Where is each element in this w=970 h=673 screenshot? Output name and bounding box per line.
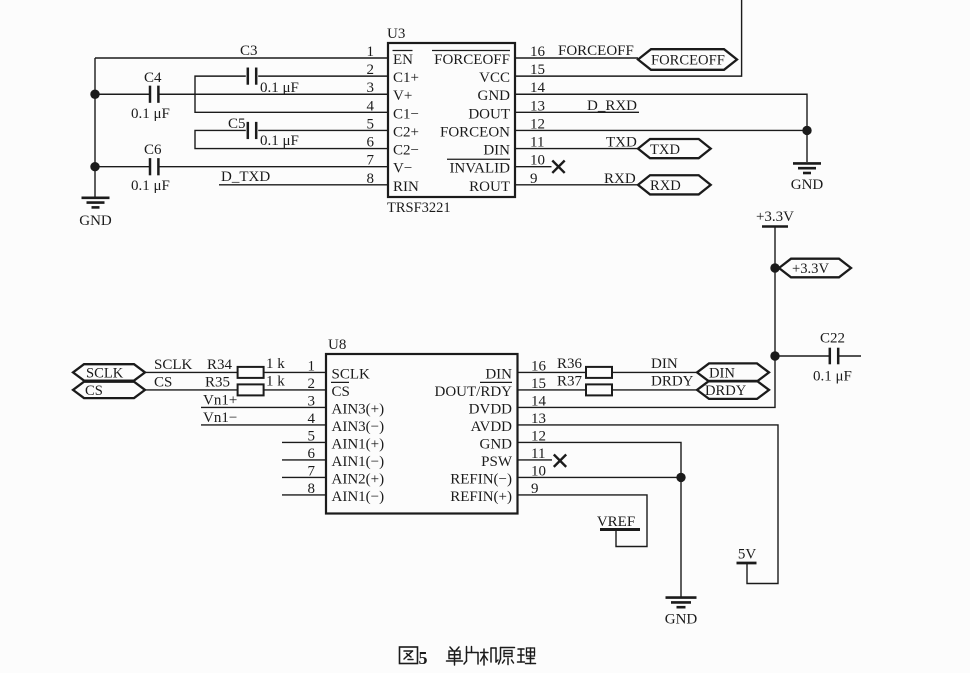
svg-text:R37: R37	[557, 373, 583, 389]
wire: pin5 C2+ to capacitor C5	[258, 129, 388, 131]
U3 pin 14 (GND)	[478, 80, 546, 104]
capacitor C3 0.1uF	[240, 43, 299, 96]
U3 pin 10 (INVALID)	[447, 153, 545, 177]
svg-text:FORCEON: FORCEON	[440, 124, 510, 140]
svg-text:5: 5	[419, 648, 428, 668]
svg-text:GND: GND	[480, 436, 513, 452]
svg-text:TRSF3221: TRSF3221	[387, 200, 451, 216]
U3 pin 11 (DIN)	[483, 135, 544, 159]
wire: pin10 REFIN(-) to ground rail	[518, 476, 682, 478]
svg-text:RXD: RXD	[604, 171, 636, 187]
svg-text:D_RXD: D_RXD	[587, 98, 637, 114]
wire: pin11 PSW stub	[518, 459, 553, 461]
svg-text:C5: C5	[228, 116, 246, 132]
junction: V+ row on GND rail	[90, 90, 99, 99]
svg-text:CS: CS	[154, 374, 172, 390]
svg-text:AIN1(−): AIN1(−)	[332, 489, 385, 505]
svg-text:TXD: TXD	[606, 135, 637, 151]
ground symbol (top right)	[791, 163, 824, 193]
wire: pin16 FORCEOFF stub to flag	[515, 57, 638, 59]
svg-text:0.1 μF: 0.1 μF	[131, 106, 170, 122]
svg-text:DIN: DIN	[651, 356, 678, 372]
svg-text:DIN: DIN	[709, 366, 735, 382]
svg-text:ROUT: ROUT	[469, 179, 510, 195]
svg-text:Vn1+: Vn1+	[203, 392, 237, 408]
U8 pin 6 (AIN1(−))	[308, 446, 385, 470]
svg-text:U3: U3	[387, 26, 405, 42]
net label RXD	[604, 171, 636, 187]
net flag +3.3V	[779, 259, 851, 278]
wire: pin1 EN to GND rail	[95, 57, 388, 59]
wire: pin10 INVALID stub	[515, 166, 552, 168]
wire: pin5 stub	[282, 441, 326, 443]
wire: pin13 DOUT stub (net D_RXD)	[515, 111, 639, 113]
svg-text:D_TXD: D_TXD	[221, 169, 270, 185]
wire: Vnl+ stub to pin3 AIN3(+)	[201, 406, 326, 408]
wire: Vnl- stub to pin4 AIN3(-)	[201, 424, 326, 426]
U8 pin 4 (AIN3(−))	[308, 411, 385, 435]
U8 pin 10 (REFIN(−))	[450, 463, 546, 487]
U3 part number TRSF3221	[387, 200, 451, 216]
svg-text:GND: GND	[478, 88, 511, 104]
net flag CS	[73, 382, 145, 399]
svg-text:AVDD: AVDD	[471, 419, 513, 435]
junction: +3.3V flag tap	[770, 263, 779, 272]
svg-text:SCLK: SCLK	[154, 357, 193, 373]
svg-text:GND: GND	[791, 177, 824, 193]
svg-text:PSW: PSW	[481, 454, 513, 470]
net label D_RXD	[587, 98, 637, 114]
svg-text:14: 14	[531, 393, 547, 409]
net flag SCLK	[73, 364, 145, 381]
wire: pin9 ROUT stub to RXD flag	[515, 184, 638, 186]
svg-text:1 k: 1 k	[266, 373, 285, 389]
U3 pin 15 (VCC)	[479, 62, 545, 86]
wire: tap to capacitor C22	[775, 355, 830, 357]
svg-text:RXD: RXD	[650, 178, 681, 194]
net label CS	[154, 374, 172, 390]
svg-text:VREF: VREF	[597, 514, 635, 530]
svg-text:GND: GND	[665, 612, 698, 628]
wire: capacitor C4 to pin3 V+	[158, 93, 388, 95]
svg-text:FORCEOFF: FORCEOFF	[434, 52, 510, 68]
resistor R36	[557, 356, 612, 378]
U8 reference designator	[328, 337, 346, 353]
svg-text:V+: V+	[393, 88, 412, 104]
svg-text:FORCEOFF: FORCEOFF	[651, 52, 725, 68]
svg-text:+3.3V: +3.3V	[792, 261, 829, 277]
svg-text:C3: C3	[240, 43, 258, 59]
svg-text:0.1 μF: 0.1 μF	[131, 178, 170, 194]
wire: C22 right stub	[838, 355, 861, 357]
IC U8 (ADC) body	[326, 354, 518, 514]
svg-text:REFIN(+): REFIN(+)	[450, 489, 512, 505]
U3 pin 5 (C2+)	[367, 116, 419, 140]
wire: pin2 C1+ to capacitor C3	[258, 75, 388, 77]
U8 pin 11 (PSW)	[481, 446, 545, 470]
svg-text:AIN1(+): AIN1(+)	[332, 436, 385, 452]
U8 pin 13 (AVDD)	[471, 411, 546, 435]
svg-text:EN: EN	[393, 52, 413, 68]
svg-text:C1−: C1−	[393, 106, 419, 122]
wire: GND rail to capacitor C4	[95, 93, 150, 95]
net flag RXD	[638, 175, 711, 194]
junction: V- row on GND rail	[90, 162, 99, 171]
svg-text:C2+: C2+	[393, 124, 419, 140]
svg-text:AIN3(−): AIN3(−)	[332, 419, 385, 435]
no-connect X on pin10	[552, 161, 564, 173]
wire: GND rail vertical (left)	[94, 58, 96, 197]
wire: pin7 stub	[282, 476, 326, 478]
svg-text:DRDY: DRDY	[651, 373, 694, 389]
wire: pin16 DIN to resistor R36	[518, 371, 587, 373]
svg-text:VCC: VCC	[479, 70, 510, 86]
wire: CS flag to resistor R35	[145, 389, 238, 391]
svg-text:Vn1−: Vn1−	[203, 410, 237, 426]
svg-text:SCLK: SCLK	[86, 366, 124, 382]
wire: pin13 AVDD to 5V feed	[518, 425, 779, 584]
U3 pin 16 (FORCEOFF)	[432, 44, 546, 68]
U3 pin 1 (EN)	[367, 44, 414, 68]
wire: pin8 stub	[282, 494, 326, 496]
svg-text:DRDY: DRDY	[705, 383, 747, 399]
net label TXD	[606, 135, 637, 151]
capacitor C4 0.1uF	[131, 70, 170, 122]
U8 pin 2 (CS)	[308, 376, 350, 400]
svg-text:DOUT/RDY: DOUT/RDY	[435, 384, 513, 400]
U3 pin 3 (V+)	[367, 80, 413, 104]
wire: R34 to pin1 SCLK	[264, 371, 326, 373]
svg-text:1 k: 1 k	[266, 356, 285, 372]
svg-text:AIN3(+): AIN3(+)	[332, 401, 385, 417]
U3 pin 7 (V−)	[367, 153, 413, 177]
net label Vnl+	[203, 392, 237, 408]
svg-text:DIN: DIN	[483, 143, 510, 159]
wire: +3.3V bar down to flag junction	[774, 227, 776, 269]
wire: D_TXD stub to pin8 RIN	[219, 184, 388, 186]
svg-text:TXD: TXD	[650, 142, 680, 158]
wire: R37 to DRDY flag	[612, 389, 697, 391]
net label DIN	[651, 356, 678, 372]
svg-text:FORCEOFF: FORCEOFF	[558, 43, 634, 59]
wire: R36 to DIN flag	[612, 371, 697, 373]
wire: pin12 FORCEON to ground junction	[515, 129, 807, 131]
svg-text:AIN2(+): AIN2(+)	[332, 471, 385, 487]
U8 pin 3 (AIN3(+))	[308, 393, 385, 417]
U3 pin 12 (FORCEON)	[440, 116, 545, 140]
svg-text:C2−: C2−	[393, 143, 419, 159]
wire: pin9 REFIN(+) to VREF	[518, 495, 648, 547]
junction: REFIN(-) on ground rail	[676, 473, 685, 482]
junction: C22 tap	[770, 351, 779, 360]
svg-text:DOUT: DOUT	[468, 106, 510, 122]
net label SCLK	[154, 357, 193, 373]
ground symbol (bottom)	[665, 598, 698, 628]
resistor R37	[557, 373, 612, 395]
svg-text:DIN: DIN	[485, 366, 512, 382]
U3 pin 8 (RIN)	[367, 171, 420, 195]
svg-text:V−: V−	[393, 161, 412, 177]
svg-text:C22: C22	[820, 331, 845, 347]
ground symbol (left)	[79, 198, 112, 229]
svg-text:5V: 5V	[738, 547, 757, 563]
power symbol +3.3V bar	[756, 209, 794, 227]
net label FORCEOFF	[558, 43, 634, 59]
net label D_TXD	[221, 169, 270, 185]
U3 pin 4 (C1−)	[367, 98, 419, 122]
net label DRDY	[651, 373, 694, 389]
wire: pin6 stub	[282, 459, 326, 461]
svg-text:RIN: RIN	[393, 179, 419, 195]
svg-text:U8: U8	[328, 337, 346, 353]
U8 pin 1 (SCLK)	[308, 358, 371, 382]
U8 pin 15 (DOUT/RDY)	[435, 376, 547, 400]
wire: +3.3V rail down to DVDD pin14	[518, 356, 776, 407]
net flag DIN	[697, 363, 769, 381]
wire: pin11 DIN stub to TXD flag	[515, 148, 638, 150]
U8 pin 8 (AIN1(−))	[308, 481, 385, 505]
U8 pin 12 (GND)	[480, 428, 547, 452]
svg-text:0.1 μF: 0.1 μF	[260, 133, 299, 149]
svg-text:REFIN(−): REFIN(−)	[450, 471, 512, 487]
svg-text:CS: CS	[332, 384, 350, 400]
U8 pin 7 (AIN2(+))	[308, 463, 385, 487]
U8 pin 5 (AIN1(+))	[308, 428, 385, 452]
wire: capacitor C3 loop to pin4 C1-	[195, 76, 388, 112]
U3 pin 9 (ROUT)	[469, 171, 537, 195]
svg-text:DVDD: DVDD	[469, 401, 512, 417]
U8 pin 14 (DVDD)	[469, 393, 547, 417]
capacitor C5 0.1uF	[228, 116, 299, 149]
wire: pin12 GND down to ground	[518, 442, 682, 597]
svg-text:INVALID: INVALID	[449, 161, 510, 177]
svg-text:R34: R34	[207, 357, 233, 373]
capacitor C22 0.1uF	[813, 331, 852, 385]
wire: GND rail to capacitor C6	[95, 166, 150, 168]
U3 pin 2 (C1+)	[367, 62, 419, 86]
resistor R35 1k	[205, 373, 285, 395]
junction: FORCEON/GND net	[802, 126, 811, 135]
caption: figure 5 (MCU principle)	[400, 647, 536, 669]
resistor R34 1k	[207, 356, 285, 378]
wire: capacitor C6 to pin7 V-	[158, 166, 388, 168]
wire: pin15 DOUT/RDY to resistor R37	[518, 389, 587, 391]
capacitor C6 0.1uF	[131, 142, 170, 194]
wire: R35 to pin2 CS	[264, 389, 326, 391]
net flag TXD	[638, 139, 711, 158]
svg-text:+3.3V: +3.3V	[756, 209, 794, 225]
svg-text:0.1 μF: 0.1 μF	[813, 369, 852, 385]
wire: capacitor C5 loop to pin6 C2-	[195, 130, 388, 148]
svg-text:C4: C4	[144, 70, 162, 86]
net label Vnl-	[203, 410, 237, 426]
U8 pin 9 (REFIN(+))	[450, 481, 538, 505]
power symbol VREF bar	[597, 514, 640, 530]
U3 reference designator	[387, 26, 405, 42]
wire: pin14 GND to right ground	[515, 94, 807, 162]
U3 pin 13 (DOUT)	[468, 98, 545, 122]
net flag FORCEOFF	[638, 49, 737, 70]
svg-text:AIN1(−): AIN1(−)	[332, 454, 385, 470]
svg-text:R35: R35	[205, 374, 230, 390]
U8 pin 16 (DIN)	[485, 358, 546, 382]
svg-text:C1+: C1+	[393, 70, 419, 86]
no-connect X on pin11	[554, 455, 566, 467]
svg-text:R36: R36	[557, 356, 583, 372]
U3 pin 6 (C2−)	[367, 135, 419, 159]
svg-text:CS: CS	[85, 383, 103, 399]
net flag DRDY	[697, 381, 769, 399]
wire: SCLK flag to resistor R34	[145, 371, 238, 373]
svg-text:C6: C6	[144, 142, 162, 158]
wire: pin15 VCC up to top edge	[515, 0, 742, 76]
power symbol 5V bar	[737, 547, 757, 564]
svg-text:SCLK: SCLK	[332, 366, 371, 382]
svg-text:GND: GND	[79, 213, 112, 229]
wire: +3.3V rail down to C22 tap	[774, 268, 776, 356]
IC U3 TRSF3221 body	[388, 43, 515, 197]
